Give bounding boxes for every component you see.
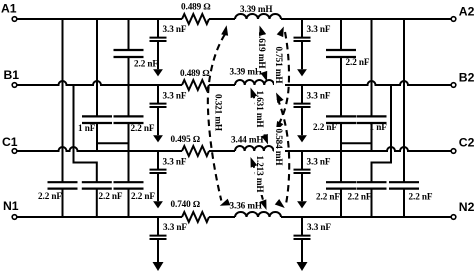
mutual inductance M C-N 1.213 mH	[251, 154, 267, 210]
wire row N left	[17, 216, 182, 218]
wire A-B column left lower	[128, 57, 130, 85]
svg-text:2.2 nF: 2.2 nF	[99, 191, 123, 201]
wire jog above C left (x=97 to x=128.5)	[97, 142, 129, 144]
wire A-C column left upper (x=97)	[96, 19, 98, 116]
ground arrow row C x=302	[297, 173, 307, 208]
capacitor 2.2nF A-B right	[326, 50, 370, 67]
capacitor 3.3nF row C x=158	[150, 151, 187, 173]
wire B-C column right lower	[340, 123, 342, 151]
svg-text:1 nF: 1 nF	[78, 123, 96, 133]
capacitor 3.3nF row A x=302	[294, 19, 331, 41]
svg-text:1.631 mH: 1.631 mH	[255, 91, 265, 128]
ground arrow row N x=302	[297, 239, 308, 271]
wire row C middle	[209, 150, 235, 152]
svg-text:2.2 nF: 2.2 nF	[409, 192, 433, 202]
wire B-N column left upper (x=73.5 with jog)	[74, 85, 97, 182]
wire row B right (hops over A-C and A-N columns)	[274, 81, 451, 85]
svg-text:0.584 mH: 0.584 mH	[274, 129, 284, 166]
wire A-B column left (x=128.5)	[128, 19, 130, 50]
inductor L4 3.36 mH row N	[230, 200, 282, 217]
wire A-N column left upper (x=62.5)	[62, 19, 64, 182]
node A2 terminal	[451, 4, 474, 21]
capacitor 2.2nF A-B left	[114, 50, 159, 69]
wire A-B column right (x=341)	[340, 19, 342, 50]
node C2 terminal	[451, 136, 474, 154]
resistor R1 0.489 ohm row A	[181, 2, 210, 24]
ground arrow row N x=158	[153, 239, 164, 271]
svg-text:1.213 mH: 1.213 mH	[255, 156, 265, 193]
capacitor 2.2nF A-N right	[389, 182, 433, 201]
svg-text:2.2 nF: 2.2 nF	[316, 192, 340, 202]
wire B-N column right lower	[371, 189, 373, 217]
svg-text:2.2 nF: 2.2 nF	[38, 191, 62, 201]
svg-text:2.2 nF: 2.2 nF	[131, 191, 155, 201]
capacitor 3.3nF row N x=302	[294, 217, 332, 239]
node N1 terminal	[3, 199, 19, 220]
resistor R2 0.489 ohm row B	[180, 68, 209, 90]
svg-text:B1: B1	[4, 68, 20, 82]
mutual inductance M A-N 0.321 mH	[208, 25, 231, 206]
capacitor 3.3nF row A x=158	[150, 19, 187, 41]
wire A-C column right upper (x=371.5)	[371, 19, 373, 116]
svg-text:N2: N2	[459, 200, 474, 214]
resistor R3 0.495 ohm row C	[171, 134, 210, 156]
node B1 terminal	[4, 68, 20, 87]
svg-text:2.2 nF: 2.2 nF	[313, 122, 337, 132]
wire C-N column left lower	[128, 189, 130, 217]
wire row N right	[281, 216, 451, 218]
resistor R4 0.740 ohm row N	[171, 199, 210, 222]
wire row B middle	[209, 84, 235, 86]
svg-text:2.2 nF: 2.2 nF	[131, 123, 155, 133]
svg-text:0.740 Ω: 0.740 Ω	[171, 199, 200, 209]
capacitor 3.3nF row B x=158	[150, 85, 187, 107]
svg-text:3.3 nF: 3.3 nF	[307, 90, 331, 100]
wire row C right (hops over B-N and A-N columns)	[274, 147, 452, 151]
capacitor 1nF A-C left	[78, 116, 112, 133]
capacitor 3.3nF row C x=302	[294, 151, 331, 173]
svg-text:B2: B2	[459, 71, 474, 85]
capacitor 2.2nF B-N left	[82, 182, 123, 201]
svg-text:3.3 nF: 3.3 nF	[163, 156, 187, 166]
mutual inductance M A-B 1.619 mH	[257, 26, 268, 82]
wire jog above C right (x=341 to x=371.5)	[341, 142, 372, 144]
ground arrow row C x=158	[153, 173, 163, 208]
wire row C left (hops over A-N and B-N columns)	[17, 147, 182, 151]
node C1 terminal	[2, 135, 18, 153]
svg-text:3.3 nF: 3.3 nF	[163, 90, 187, 100]
wire C-N column right (x=341)	[340, 151, 342, 182]
wire A-N column left lower	[62, 189, 64, 217]
capacitor 2.2nF C-N right	[316, 182, 356, 201]
node B2 terminal	[451, 71, 474, 88]
svg-text:3.39 mH: 3.39 mH	[240, 4, 272, 14]
inductor L2 3.39 mH row B	[230, 66, 275, 85]
svg-text:2.2 nF: 2.2 nF	[348, 192, 372, 202]
wire B-C column left lower	[128, 123, 130, 151]
capacitor 2.2nF A-N left	[38, 182, 78, 201]
svg-text:A1: A1	[1, 2, 17, 16]
wire C-N column left (x=128.5)	[128, 151, 130, 182]
svg-text:C2: C2	[459, 136, 474, 150]
svg-text:3.3 nF: 3.3 nF	[307, 24, 331, 34]
wire B-N column left lower	[96, 189, 98, 217]
inductor L3 3.44 mH row C	[231, 134, 274, 151]
svg-text:0.495 Ω: 0.495 Ω	[171, 134, 200, 144]
svg-text:A2: A2	[459, 4, 474, 18]
svg-text:3.44 mH: 3.44 mH	[231, 134, 263, 144]
wire B-C column right (x=341)	[340, 85, 342, 116]
svg-text:C1: C1	[2, 135, 18, 149]
wire A-B column right lower	[340, 57, 342, 85]
svg-text:2.2 nF: 2.2 nF	[134, 59, 158, 69]
wire row B left (hops over A-N and A-C columns)	[17, 81, 182, 85]
node N2 terminal	[451, 200, 474, 219]
capacitor 3.3nF row N x=158	[150, 217, 188, 239]
mutual inductance M A-C 0.751 mH	[274, 27, 289, 132]
svg-text:3.3 nF: 3.3 nF	[307, 156, 331, 166]
svg-text:N1: N1	[3, 199, 19, 213]
capacitor 2.2nF C-N left	[114, 182, 156, 201]
wire B-C column left (x=128.5)	[128, 85, 130, 116]
ground arrow row B x=302	[297, 107, 307, 142]
wire C-N column right lower	[340, 189, 342, 217]
svg-text:3.3 nF: 3.3 nF	[163, 222, 187, 232]
wire B-N column right upper (x=391 with jog)	[372, 85, 392, 182]
capacitor 2.2nF B-C right	[313, 116, 356, 132]
wire A-N column right upper (x=404)	[403, 19, 405, 182]
capacitor 1nF A-C right	[357, 116, 388, 132]
wire row A left	[17, 18, 182, 20]
ground arrow row A x=158	[153, 41, 163, 76]
node A1 terminal	[1, 2, 17, 22]
mutual inductance M B-C 1.631 mH	[251, 88, 269, 145]
wire A-C column left lower	[96, 123, 98, 151]
svg-text:3.3 nF: 3.3 nF	[307, 222, 331, 232]
wire row N middle	[209, 216, 235, 218]
capacitor 2.2nF B-C left	[114, 116, 155, 133]
wire A-C column right lower	[371, 123, 373, 151]
mutual inductance M B-N 0.584 mH	[274, 93, 289, 209]
ground arrow row A x=302	[297, 41, 307, 76]
capacitor 3.3nF row B x=302	[294, 85, 331, 107]
svg-text:0.751 mH: 0.751 mH	[274, 47, 284, 84]
capacitor 2.2nF B-N right	[348, 182, 387, 201]
wire row A right	[281, 18, 451, 20]
svg-text:0.489 Ω: 0.489 Ω	[180, 68, 209, 78]
ground arrow row B x=158	[153, 107, 163, 142]
svg-text:3.3 nF: 3.3 nF	[163, 24, 187, 34]
svg-text:0.489 Ω: 0.489 Ω	[181, 2, 210, 12]
svg-text:0.321 mH: 0.321 mH	[214, 94, 224, 131]
inductor L1 3.39 mH row A	[235, 4, 281, 19]
svg-text:3.36 mH: 3.36 mH	[230, 200, 262, 210]
svg-text:2.2 nF: 2.2 nF	[346, 57, 370, 67]
svg-text:1.619 mH: 1.619 mH	[257, 32, 267, 69]
wire A-N column right lower	[403, 189, 405, 217]
wire row A middle	[209, 18, 235, 20]
